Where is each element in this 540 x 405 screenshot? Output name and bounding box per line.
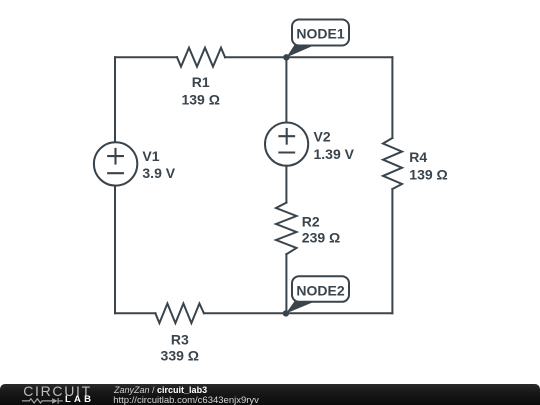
footer bar	[0, 384, 540, 405]
voltage source V1	[94, 142, 137, 185]
svg-text:R3: R3	[171, 331, 189, 347]
svg-text:R1: R1	[192, 74, 210, 90]
svg-text:V2: V2	[314, 129, 331, 145]
node NODE2 flag tail	[286, 301, 316, 314]
wire left lower segment	[114, 186, 116, 314]
svg-text:NODE2: NODE2	[296, 282, 344, 298]
wire middle upper segment	[285, 57, 287, 122]
resistor R3	[155, 304, 204, 324]
wire top-left segment	[115, 56, 177, 58]
wire middle lower segment	[285, 254, 287, 313]
svg-text:1.39 V: 1.39 V	[314, 146, 355, 162]
CircuitLab logo wordmark LAB	[65, 394, 94, 405]
wire middle mid segment	[285, 166, 287, 203]
footer url text	[113, 395, 259, 405]
resistor R4	[383, 138, 402, 189]
resistor R1	[177, 48, 225, 67]
svg-text:3.9 V: 3.9 V	[142, 165, 175, 181]
voltage source V2	[265, 123, 308, 166]
wire bottom-right segment	[204, 312, 393, 314]
footer title text	[114, 385, 207, 395]
node NODE1 junction dot	[283, 54, 289, 60]
svg-text:R2: R2	[302, 213, 320, 229]
node NODE1 label box	[292, 20, 349, 46]
svg-text:139 Ω: 139 Ω	[181, 91, 219, 107]
node NODE1 flag tail	[286, 44, 316, 57]
CircuitLab logo wordmark CIRCUIT	[23, 383, 92, 399]
svg-text:339 Ω: 339 Ω	[161, 347, 199, 363]
svg-text:NODE1: NODE1	[296, 26, 344, 42]
wire top-right segment	[225, 56, 392, 58]
wire left upper segment	[114, 57, 116, 142]
CircuitLab logo resistor-diode glyph	[21, 396, 67, 405]
wire bottom-left segment	[115, 312, 155, 314]
node NODE2 junction dot	[283, 310, 289, 316]
node NODE2 label box	[292, 276, 349, 302]
wire right upper segment	[391, 57, 393, 138]
svg-text:239 Ω: 239 Ω	[302, 230, 340, 246]
svg-text:V1: V1	[142, 148, 159, 164]
svg-text:139 Ω: 139 Ω	[409, 167, 447, 183]
resistor R2	[276, 203, 297, 255]
wire right lower segment	[391, 189, 393, 313]
svg-text:R4: R4	[409, 149, 427, 165]
